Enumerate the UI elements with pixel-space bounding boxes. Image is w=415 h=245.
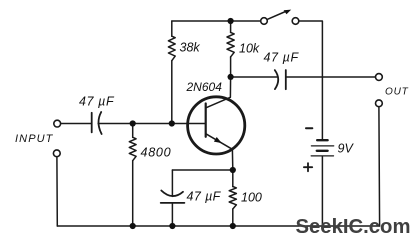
svg-text:38k: 38k (180, 41, 201, 55)
svg-text:47 µF: 47 µF (79, 95, 115, 109)
svg-text:INPUT: INPUT (15, 133, 54, 145)
svg-text:47 µF: 47 µF (264, 51, 300, 65)
svg-text:4800: 4800 (141, 145, 172, 159)
svg-text:OUT: OUT (385, 87, 409, 98)
svg-text:2N604: 2N604 (186, 80, 223, 94)
svg-text:9V: 9V (338, 142, 355, 156)
svg-text:100: 100 (241, 191, 262, 205)
svg-text:10k: 10k (239, 42, 260, 56)
svg-text:SeekIC.com: SeekIC.com (296, 216, 411, 238)
svg-text:47 µF: 47 µF (187, 190, 222, 204)
